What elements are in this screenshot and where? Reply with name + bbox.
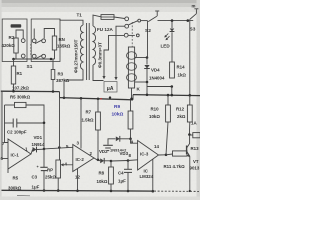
resistor R8 xyxy=(110,161,112,167)
LED VD5 xyxy=(171,21,173,28)
transistor VT base bar xyxy=(186,146,188,155)
wire R11 to base xyxy=(186,153,188,155)
scan blob on rail near uA meter xyxy=(109,96,111,98)
wire R9 bottom to VD3 node xyxy=(130,129,132,139)
node IC-3 on ground bus xyxy=(152,190,155,193)
node VD4 bottom xyxy=(146,81,149,84)
node C4 on ground bus xyxy=(127,190,130,193)
resistor R12 xyxy=(189,95,191,105)
op-amp IC-1 triangle xyxy=(8,139,31,169)
resistor R3 xyxy=(51,70,55,80)
wire VD3 cathode to node xyxy=(120,138,131,140)
capacitor C3 electrolytic xyxy=(43,149,45,167)
transformer T1 secondary winding xyxy=(93,26,96,65)
resistor R9 xyxy=(128,111,133,129)
scan paper noise overlay xyxy=(0,0,200,200)
diode VD2 xyxy=(100,158,104,163)
wire IC-2 output to VD2 xyxy=(94,158,100,161)
wire S2 to S3 along top xyxy=(158,20,194,22)
wire R5 left xyxy=(5,104,15,106)
node C2 feedback xyxy=(43,122,46,125)
switch S1 deck B contacts xyxy=(32,39,36,43)
resistor R5 feedback xyxy=(15,102,27,107)
wire node to IC-3 pin 9 xyxy=(131,139,138,143)
potentiometer RP body xyxy=(56,160,61,178)
wire RN bottom xyxy=(54,50,56,59)
scan artifact: gray right edge xyxy=(197,0,201,200)
node emitter on ground bus xyxy=(189,190,191,192)
resistor R1 xyxy=(11,66,15,84)
node R10 top on rail xyxy=(167,94,170,97)
node R1 top xyxy=(12,58,15,61)
node VD1 output xyxy=(43,148,46,151)
wire terminal 3 to meter arrow A xyxy=(104,35,124,76)
wire IC-1 bottom to ground bus xyxy=(7,169,9,173)
microammeter uA box xyxy=(104,82,117,93)
main supply rail middle segment xyxy=(60,98,134,100)
rail step down xyxy=(59,92,61,98)
wire C2 left xyxy=(5,122,14,124)
ground symbol xyxy=(103,144,113,146)
transistor VT emitter xyxy=(187,152,190,156)
wire VD1 to node xyxy=(37,148,45,150)
wire input to IC-1 pin 7 xyxy=(5,105,9,143)
left border wire xyxy=(1,91,3,158)
node R12 top on rail xyxy=(189,94,192,97)
meter arrow A head xyxy=(102,76,105,79)
wire coil bottom right to VD4 bottom xyxy=(135,81,147,83)
wire IC-3 power pin to ground bus xyxy=(152,159,154,191)
switch S1 contact a2 xyxy=(21,54,25,58)
capacitor C2 plates xyxy=(12,119,14,128)
red scan mark at R7 node xyxy=(100,98,102,100)
wire signal to IC-3 pin 8 xyxy=(111,160,128,163)
wire C2 right to feedback node xyxy=(17,122,44,124)
wire deck B contact to top wire xyxy=(33,29,35,39)
resistor RN xyxy=(52,36,56,50)
ground bus dotted continuation xyxy=(154,190,199,192)
op-amp IC-2 triangle xyxy=(73,145,94,172)
node RP column on signal wire xyxy=(58,146,61,149)
switch S3 arm xyxy=(190,14,197,20)
resistor R13 to edge xyxy=(189,134,192,136)
wire coil top right to VD4 top xyxy=(135,57,147,59)
wire RN top loop to contact xyxy=(44,29,54,39)
node C3 on ground bus xyxy=(43,189,46,192)
node S3 branch xyxy=(187,19,190,22)
resistor R10 pull-up xyxy=(167,95,169,105)
dashed enclosure box 2 (RN range section) xyxy=(31,19,60,62)
capacitor C4 xyxy=(127,161,129,170)
resistor R7 from rail xyxy=(97,99,99,112)
dashed enclosure box 1 (R2 range section) xyxy=(2,19,27,62)
switch S3 contact tick xyxy=(195,9,197,14)
terminal circle 3 xyxy=(124,33,128,37)
node R8 on ground bus xyxy=(110,190,113,193)
node IC-2 pin 12 on ground bus xyxy=(76,190,79,193)
meter arrow B head xyxy=(114,77,117,80)
switch S1 deck C arm xyxy=(35,55,42,59)
wire secondary top to fuse xyxy=(93,15,101,26)
relay contact point K2 xyxy=(136,34,139,37)
scan tick below bus xyxy=(17,195,30,197)
wire VD4 node to rail xyxy=(146,87,148,95)
potentiometer RP wiper arrow xyxy=(63,164,73,166)
node relay coil bottom on rail xyxy=(130,98,133,101)
wire R2 bottom xyxy=(15,53,17,59)
node R3 top xyxy=(50,58,53,61)
resistor R14 xyxy=(170,62,175,78)
node R7 at IC-2 output xyxy=(97,159,100,162)
ground bus xyxy=(2,189,155,192)
wire S2 column down to relay node xyxy=(147,21,149,58)
LED emission arrows xyxy=(165,34,169,38)
wire R2 top loop to contact xyxy=(16,30,23,38)
wire VD3 anode to ground stub xyxy=(108,139,116,145)
switch S1 deck C contacts xyxy=(32,54,36,58)
wire VD4 bottom to R14 bottom node xyxy=(147,82,172,87)
node collector R12 R13 xyxy=(188,133,191,136)
rail step up xyxy=(132,95,134,100)
switch S2 contact tick xyxy=(156,12,158,17)
wire fuse to terminal 1 xyxy=(114,17,125,19)
terminal circle 1 xyxy=(125,17,129,21)
node IC-3 output xyxy=(165,154,168,157)
wire IC-2 pin 12 to ground bus xyxy=(77,169,79,191)
node VD4 column on rail xyxy=(146,94,149,97)
node primary bottom on rail xyxy=(63,97,66,100)
wire primary bottom to rail xyxy=(64,69,83,97)
wire IC-1 output to VD1 xyxy=(31,150,33,155)
diode VD3 xyxy=(116,136,120,141)
node RP on ground bus xyxy=(57,189,60,192)
wire emitter down xyxy=(189,156,191,191)
terminal circle 2 xyxy=(125,24,129,28)
resistor R2 xyxy=(14,38,18,53)
wire R1 bottom to rail xyxy=(13,84,15,91)
diode VD1 xyxy=(33,147,37,152)
wire R3 top xyxy=(52,59,54,70)
wire primary top to selector box 2 xyxy=(60,19,83,25)
wire R1 top xyxy=(13,59,15,66)
wire terminal 2 to meter arrow B xyxy=(116,26,125,77)
relay contact point K1 xyxy=(138,19,141,22)
wire IC-3 output xyxy=(159,154,167,156)
node R1 bottom on rail xyxy=(12,90,15,93)
relay coil K body xyxy=(128,47,134,88)
scan artifact: gray bottom edge xyxy=(0,197,200,201)
relay contact wire from terminal 3 xyxy=(128,34,135,36)
wire S3 down to rail xyxy=(189,21,191,96)
dark label bar inside box 1 xyxy=(11,24,22,27)
relay coil K loops xyxy=(127,52,137,60)
switch S1 contact a1 xyxy=(21,39,25,43)
wire IC-1 pin 6 xyxy=(2,158,8,160)
wire R3 bottom to rail xyxy=(52,80,54,92)
node VD3 xyxy=(129,138,132,141)
node R14 bottom xyxy=(171,85,174,88)
wire to IC-3 pin 8 xyxy=(128,159,138,162)
node R14 column on rail xyxy=(171,94,174,97)
scan artifact: gray top band xyxy=(0,0,200,3)
node C4 top xyxy=(127,159,130,162)
wire node to rail xyxy=(171,87,173,96)
wire output node to IC-2 pin 5 xyxy=(44,147,73,149)
transformer T1 primary winding xyxy=(80,25,83,69)
node LED top xyxy=(171,19,174,22)
wire common bottom of selector xyxy=(14,58,55,60)
main supply rail right segment xyxy=(133,95,200,96)
main supply rail left segment xyxy=(1,90,60,92)
switch S2 arm xyxy=(148,16,157,21)
node R3 bottom on rail xyxy=(52,90,55,93)
relay mechanical link dashed xyxy=(131,22,133,47)
transistor VT collector xyxy=(187,135,190,148)
node IC-2 pin3 feed on rail xyxy=(80,97,83,100)
transformer T1 core xyxy=(86,23,88,80)
wire rail to R9 xyxy=(130,100,132,111)
fuse FU xyxy=(101,15,114,20)
node VD4 top xyxy=(146,56,149,59)
wire contact K1 to S2 xyxy=(141,20,148,22)
switch S1 deck B arm xyxy=(35,40,42,44)
wire coil bottom to rail xyxy=(131,88,133,99)
switch S1 mechanical link (dashed) xyxy=(30,44,32,56)
resistor R11 base xyxy=(173,151,188,156)
wire IC-2 pin 3 to rail xyxy=(80,98,82,148)
node R8 top xyxy=(110,160,113,163)
op-amp IC-3 triangle xyxy=(138,141,159,171)
diode VD4 xyxy=(146,58,148,65)
wire RP bottom to ground bus xyxy=(57,178,59,191)
wire VD2 to node xyxy=(104,160,111,162)
wire secondary bottom to meter point xyxy=(93,65,104,81)
wire rail branch down to RP xyxy=(59,98,61,160)
relay contact arm K1 (from terminal 2) xyxy=(129,21,138,25)
wire R5 right to feedback node xyxy=(26,105,44,149)
node R7 top on rail xyxy=(97,98,100,101)
